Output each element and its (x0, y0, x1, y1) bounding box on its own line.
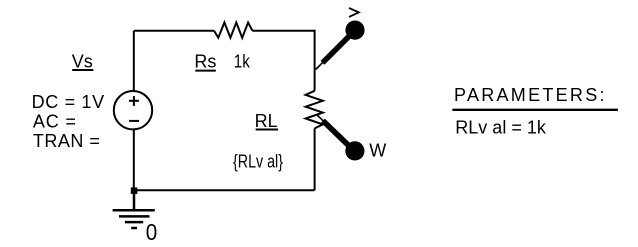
svg-text:{RLv al}: {RLv al} (233, 152, 283, 172)
resistor Rs zigzag (214, 23, 252, 38)
wire: bottom rail (134, 189, 315, 191)
power probe marker W head (345, 141, 364, 160)
wire: right vertical upper (314, 30, 316, 91)
underline of Rs (195, 70, 216, 72)
power probe marker W tip (316, 114, 324, 122)
svg-text:Vs: Vs (72, 52, 93, 72)
voltage probe marker shaft (323, 35, 351, 63)
minus sign inside Vs (129, 120, 139, 122)
svg-text:1k: 1k (234, 52, 251, 72)
ground symbol bar 4 (131, 227, 137, 230)
resistor RL zigzag (vertical) (306, 91, 323, 129)
underline of RL (256, 129, 279, 131)
wire: top rail left segment (134, 30, 214, 32)
svg-text:W: W (369, 141, 386, 161)
svg-text:RL: RL (255, 111, 278, 131)
power probe marker W shaft (323, 121, 350, 147)
wire: left vertical from top rail to Vs (133, 31, 135, 92)
underline of PARAMETERS heading (452, 109, 618, 111)
wire: top rail right segment (252, 30, 314, 32)
svg-text:DC = 1V: DC = 1V (32, 92, 105, 112)
underline of Vs (72, 69, 93, 71)
voltage probe marker symbol > (349, 8, 359, 17)
voltage source Vs circle (114, 91, 152, 129)
ground symbol bar 1 (113, 209, 155, 212)
svg-text:TRAN =: TRAN = (33, 131, 100, 151)
plus sign inside Vs (129, 100, 139, 102)
svg-text:0: 0 (146, 219, 158, 245)
svg-text:Rs: Rs (194, 52, 216, 72)
wire: left vertical from Vs to bottom rail (133, 129, 135, 190)
svg-text:PARAMETERS:: PARAMETERS: (454, 85, 605, 105)
ground symbol bar 3 (125, 221, 143, 224)
voltage probe marker head (345, 21, 364, 40)
ground symbol bar 2 (119, 215, 150, 218)
svg-text:RLv al = 1k: RLv al = 1k (455, 117, 547, 137)
svg-text:AC =: AC = (33, 111, 76, 131)
wire: right vertical lower (314, 128, 316, 190)
junction dot at ground node (131, 187, 138, 194)
voltage probe marker tip (316, 62, 324, 70)
ground stub wire (133, 190, 136, 210)
